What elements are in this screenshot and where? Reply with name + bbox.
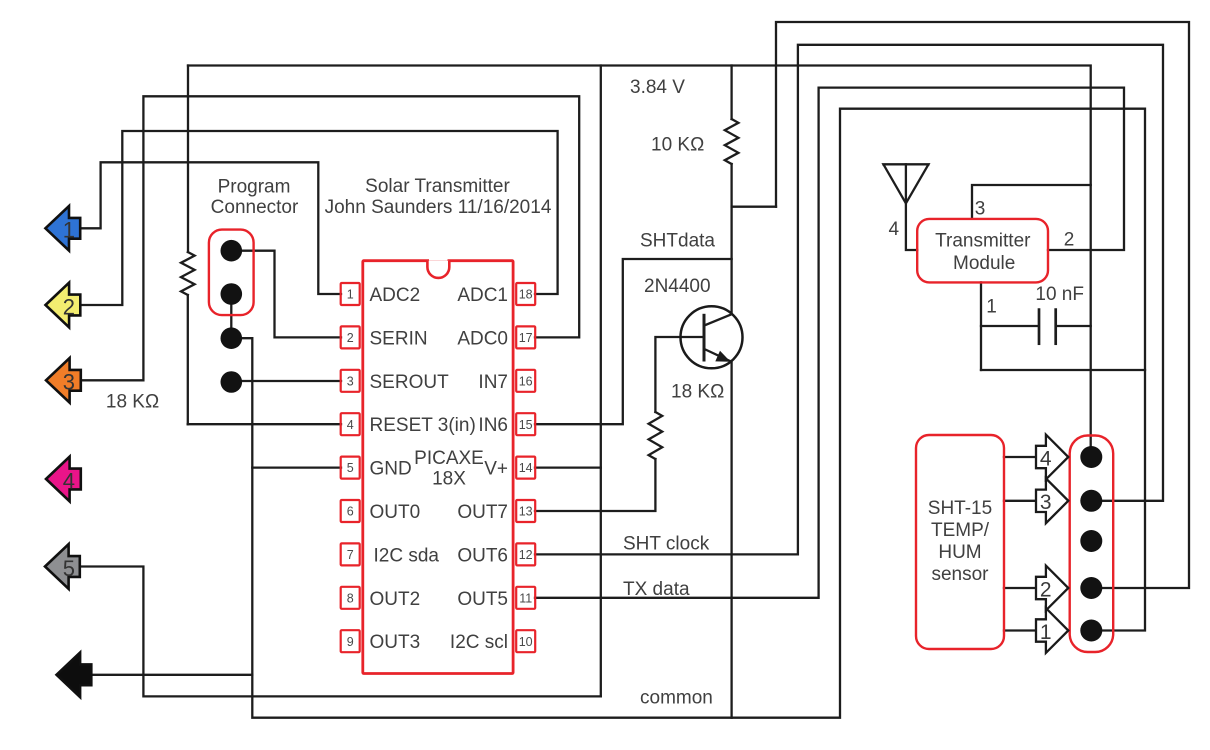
svg-text:6: 6: [347, 505, 354, 519]
svg-text:5: 5: [347, 461, 354, 475]
svg-text:OUT6: OUT6: [457, 545, 508, 566]
svg-text:PICAXE: PICAXE: [414, 448, 484, 469]
svg-text:SEROUT: SEROUT: [370, 372, 450, 393]
svg-text:Solar Transmitter: Solar Transmitter: [365, 176, 510, 197]
svg-text:I2C scl: I2C scl: [450, 632, 508, 653]
svg-text:Program: Program: [218, 177, 291, 198]
svg-text:12: 12: [519, 548, 533, 562]
svg-text:4: 4: [347, 418, 354, 432]
svg-text:1: 1: [1040, 621, 1052, 644]
svg-text:Transmitter: Transmitter: [935, 230, 1031, 251]
svg-text:V+: V+: [484, 459, 508, 480]
svg-text:2: 2: [63, 294, 75, 319]
svg-text:OUT5: OUT5: [457, 589, 508, 610]
svg-text:8: 8: [347, 591, 354, 605]
svg-text:18 KΩ: 18 KΩ: [106, 392, 159, 413]
svg-text:IN6: IN6: [478, 415, 508, 436]
svg-text:Connector: Connector: [211, 197, 299, 218]
svg-text:SERIN: SERIN: [370, 328, 428, 349]
svg-text:9: 9: [347, 635, 354, 649]
svg-text:GND: GND: [370, 459, 412, 480]
svg-text:3.84 V: 3.84 V: [630, 77, 685, 98]
svg-text:I2C sda: I2C sda: [374, 545, 440, 566]
svg-text:HUM: HUM: [938, 542, 981, 563]
svg-text:1: 1: [63, 218, 75, 243]
svg-text:SHT clock: SHT clock: [623, 534, 710, 555]
svg-text:OUT7: OUT7: [457, 502, 508, 523]
svg-text:4: 4: [1040, 447, 1052, 470]
svg-text:RESET 3(in): RESET 3(in): [370, 415, 476, 436]
svg-text:TX data: TX data: [623, 579, 690, 600]
svg-text:3: 3: [347, 374, 354, 388]
svg-text:14: 14: [519, 461, 533, 475]
svg-text:sensor: sensor: [931, 564, 989, 585]
svg-text:18: 18: [519, 288, 533, 302]
svg-text:common: common: [640, 688, 713, 709]
svg-text:1: 1: [986, 297, 997, 318]
svg-text:4: 4: [889, 219, 900, 240]
svg-text:OUT2: OUT2: [370, 589, 421, 610]
svg-text:SHT-15: SHT-15: [928, 498, 992, 519]
svg-text:5: 5: [63, 556, 75, 581]
svg-text:2: 2: [347, 331, 354, 345]
svg-text:ADC0: ADC0: [457, 328, 508, 349]
svg-text:17: 17: [519, 331, 533, 345]
svg-text:ADC1: ADC1: [457, 285, 508, 306]
svg-text:11: 11: [519, 591, 532, 605]
svg-text:ADC2: ADC2: [370, 285, 421, 306]
svg-text:10 nF: 10 nF: [1035, 284, 1084, 305]
svg-text:4: 4: [63, 468, 75, 493]
svg-text:13: 13: [519, 505, 533, 519]
svg-text:SHTdata: SHTdata: [640, 231, 715, 252]
svg-text:3: 3: [63, 370, 75, 395]
svg-text:OUT3: OUT3: [370, 632, 421, 653]
svg-text:John Saunders 11/16/2014: John Saunders 11/16/2014: [325, 197, 552, 218]
svg-text:2N4400: 2N4400: [644, 276, 711, 297]
svg-text:15: 15: [519, 418, 533, 432]
svg-text:18X: 18X: [432, 469, 466, 490]
svg-text:Module: Module: [953, 253, 1015, 274]
svg-text:18 KΩ: 18 KΩ: [671, 382, 724, 403]
svg-text:3: 3: [1040, 491, 1052, 514]
svg-text:OUT0: OUT0: [370, 502, 421, 523]
svg-text:IN7: IN7: [478, 372, 508, 393]
svg-text:1: 1: [347, 288, 354, 302]
svg-text:2: 2: [1040, 578, 1052, 601]
svg-text:7: 7: [347, 548, 354, 562]
svg-text:2: 2: [1064, 230, 1075, 251]
svg-text:TEMP/: TEMP/: [931, 520, 990, 541]
svg-text:10: 10: [519, 635, 533, 649]
svg-text:10 KΩ: 10 KΩ: [651, 135, 704, 156]
svg-text:3: 3: [975, 199, 986, 220]
svg-text:16: 16: [519, 374, 533, 388]
